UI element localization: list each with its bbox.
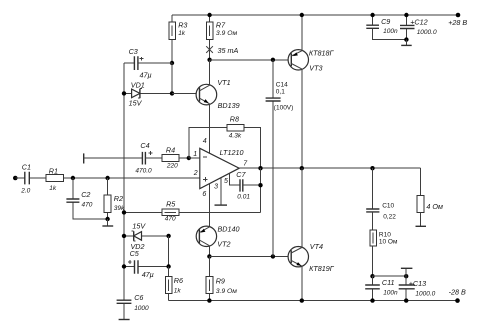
svg-text:4 Ом: 4 Ом: [426, 202, 443, 211]
node junction C13 top: [404, 274, 408, 278]
wire VT4 emitter: [301, 266, 303, 301]
svg-text:4: 4: [203, 138, 207, 145]
node junction VD1 cathode / VT1 base: [170, 91, 174, 95]
ground under C12: [401, 40, 412, 46]
svg-text:C5: C5: [130, 249, 140, 258]
node junction VT3 emitter top: [300, 13, 304, 17]
svg-text:1000.0: 1000.0: [415, 291, 435, 298]
svg-text:100n: 100n: [383, 28, 398, 35]
transistor VT4: [288, 242, 335, 273]
svg-text:2.0: 2.0: [20, 188, 30, 195]
svg-text:1k: 1k: [178, 30, 186, 37]
capacitor C1: [15, 163, 46, 195]
pin 4 label: [203, 138, 207, 145]
pin 6 label: [202, 191, 206, 198]
resistor R5: [124, 199, 261, 222]
svg-text:+С13: +С13: [409, 279, 426, 288]
capacitor C7: [236, 170, 260, 201]
resistor R4: [162, 145, 179, 169]
node junction R10/C11: [370, 274, 374, 278]
resistor R10: [370, 230, 398, 276]
node junction C2 tap: [71, 176, 75, 180]
svg-text:R2: R2: [114, 194, 123, 203]
zener diode VD1 15V: [124, 80, 172, 107]
node junction C7 right: [258, 183, 262, 187]
svg-text:VT4: VT4: [310, 242, 323, 251]
node junction R7/VT1 collector: [207, 58, 211, 62]
capacitor C13: [399, 276, 436, 300]
capacitor C3: [124, 47, 172, 80]
node junction VD1 anode: [122, 91, 126, 95]
svg-text:4.3k: 4.3k: [229, 132, 242, 139]
node junction C3/R3: [170, 61, 174, 65]
capacitor C12: [400, 15, 437, 40]
svg-text:R1: R1: [49, 167, 58, 176]
svg-text:VT1: VT1: [217, 78, 230, 87]
node +28V terminal: [456, 13, 461, 18]
resistor load 4 Ом: [417, 168, 443, 226]
svg-text:1: 1: [193, 151, 197, 158]
net label -28 В: [449, 288, 466, 297]
capacitor C4: [135, 141, 152, 175]
svg-text:LT1210: LT1210: [220, 148, 244, 157]
capacitor C6: [117, 293, 149, 319]
node junction C14 top tap: [271, 58, 275, 62]
svg-text:VT2: VT2: [217, 239, 230, 248]
svg-text:КТ819Г: КТ819Г: [309, 264, 335, 273]
svg-text:+С12: +С12: [410, 17, 427, 26]
svg-text:47µ: 47µ: [142, 270, 154, 279]
svg-text:470: 470: [82, 202, 93, 209]
ground under C6: [119, 319, 130, 321]
svg-text:C1: C1: [22, 163, 31, 172]
node junction C14 bottom tap: [271, 254, 275, 258]
wire VT3 emitter: [301, 15, 303, 51]
svg-text:C10: C10: [382, 203, 394, 210]
svg-text:R3: R3: [178, 21, 187, 30]
node junction VD2/C5/R6: [166, 234, 170, 238]
node junction VT2/R9/VT4 base: [207, 254, 211, 258]
wire R3 bottom to VD1 node: [171, 63, 173, 93]
svg-text:R9: R9: [216, 276, 225, 285]
wire +28V top rail: [172, 14, 458, 16]
wire C11/C13 link: [373, 275, 407, 277]
svg-text:0,1: 0,1: [276, 89, 285, 96]
resistor R7: [206, 15, 237, 60]
ground under load: [416, 225, 427, 227]
svg-text:C6: C6: [134, 293, 143, 302]
node junction VT4 emitter bottom: [300, 298, 304, 302]
wire bias chain vertical: [123, 63, 125, 300]
svg-text:15V: 15V: [132, 221, 146, 230]
svg-text:35 mA: 35 mA: [218, 46, 239, 55]
transistor VT3: [288, 49, 334, 73]
svg-text:R5: R5: [166, 199, 176, 208]
node junction output/VT3/VT4: [300, 166, 304, 170]
capacitor C2: [66, 178, 107, 219]
svg-text:+28 В: +28 В: [448, 18, 467, 27]
wire VT1 emitter to pin 4: [209, 104, 211, 154]
svg-text:C2: C2: [81, 190, 90, 199]
svg-text:470: 470: [165, 216, 176, 223]
node junction C9/C12 bottom: [404, 37, 408, 41]
wire -28V bottom rail: [169, 300, 458, 302]
wire VT3 base line: [210, 59, 292, 61]
node junction R7 top: [207, 13, 211, 17]
svg-text:220: 220: [166, 162, 178, 169]
input tap terminal bar: [83, 153, 85, 163]
capacitor C5: [124, 249, 169, 279]
resistor R2: [104, 178, 125, 219]
svg-text:1k: 1k: [49, 185, 57, 192]
wire VT4 base line: [209, 255, 291, 257]
node junction R5 left: [122, 210, 126, 214]
node junction C13 bottom: [404, 298, 408, 302]
pin 5 label: [224, 178, 228, 185]
svg-text:(100V): (100V): [274, 105, 294, 112]
svg-text:0,22: 0,22: [383, 214, 396, 221]
wire pin 6 to VT2 emitter: [208, 184, 210, 227]
svg-text:C11: C11: [382, 278, 395, 287]
capacitor C9: [366, 15, 406, 40]
svg-text:BD139: BD139: [218, 101, 240, 110]
svg-text:C9: C9: [381, 17, 390, 26]
wire VT1 base: [172, 92, 200, 94]
pin 3 label: [214, 184, 218, 191]
svg-text:1000: 1000: [134, 305, 149, 312]
svg-text:VT3: VT3: [309, 63, 322, 72]
transistor VT2: [196, 225, 239, 249]
resistor R9: [206, 256, 237, 300]
svg-text:R4: R4: [166, 145, 175, 154]
svg-text:100n: 100n: [383, 290, 398, 297]
capacitor C10: [366, 168, 396, 230]
ground above C13: [401, 268, 413, 276]
node junction C10 tap: [370, 166, 374, 170]
ground under R2: [102, 219, 113, 226]
svg-text:1000.0: 1000.0: [417, 29, 437, 36]
svg-text:R6: R6: [174, 276, 183, 285]
wire VT3 collector to output: [301, 69, 303, 168]
svg-text:3.9 Ом: 3.9 Ом: [216, 288, 238, 295]
resistor R1: [46, 167, 64, 192]
node junction R9 bottom: [207, 298, 211, 302]
svg-text:2: 2: [193, 170, 198, 177]
wire pin 1 stub: [189, 157, 200, 159]
svg-text:R7: R7: [216, 21, 226, 30]
node junction C5/R6: [166, 264, 170, 268]
transistor VT1: [196, 78, 239, 110]
node junction C11 bottom: [370, 298, 374, 302]
zener diode VD2 15V: [124, 221, 169, 251]
node junction C5 left: [122, 264, 126, 268]
wire pin 5 to C7: [230, 173, 240, 185]
wire VT1 collector: [209, 60, 211, 85]
svg-text:C4: C4: [140, 141, 149, 150]
svg-text:470.0: 470.0: [135, 168, 152, 175]
svg-text:C7: C7: [236, 170, 246, 179]
current marker X 35 mA: [206, 46, 238, 55]
wire VD2 node down to C5: [168, 236, 170, 267]
svg-text:3.9 Ом: 3.9 Ом: [216, 30, 238, 37]
capacitor C11: [365, 276, 398, 300]
svg-text:C3: C3: [129, 47, 138, 56]
node junction output/R8/C7: [258, 166, 262, 170]
svg-text:15V: 15V: [129, 99, 143, 108]
node junction C12 top: [404, 13, 408, 17]
resistor R3: [169, 15, 188, 63]
node -28V terminal: [455, 298, 460, 303]
svg-text:-28 В: -28 В: [449, 288, 466, 297]
wire C4 to R4: [145, 157, 162, 159]
wire R1 to op-amp pin 2: [63, 177, 199, 179]
svg-text:КТ818Г: КТ818Г: [309, 49, 335, 58]
ground at pin 3: [215, 178, 228, 205]
wire output to C7/R5 tap: [260, 168, 262, 212]
svg-text:0.01: 0.01: [237, 194, 250, 201]
svg-text:47µ: 47µ: [140, 70, 152, 79]
capacitor C14: [266, 60, 294, 257]
svg-text:3: 3: [214, 184, 218, 191]
op-amp U1 LT1210: [200, 148, 244, 189]
wire VT2 collector: [208, 246, 210, 257]
wire VT4 collector to output: [301, 168, 303, 247]
node junction R2 tap: [105, 176, 109, 180]
resistor R8: [189, 114, 261, 168]
wire tap to C4: [84, 157, 143, 159]
svg-text:6: 6: [202, 191, 206, 198]
svg-text:R8: R8: [230, 114, 239, 123]
node junction VD2 cathode: [122, 234, 126, 238]
svg-text:5: 5: [224, 178, 228, 185]
svg-text:VD1: VD1: [131, 80, 145, 89]
node junction R2/C2 bottom: [105, 217, 109, 221]
svg-text:10 Ом: 10 Ом: [379, 238, 398, 245]
svg-text:1k: 1k: [174, 288, 182, 295]
node junction C9 top: [370, 13, 374, 17]
pin 1 label: [193, 151, 197, 158]
resistor R6: [165, 267, 183, 301]
node junction pin1/R4/R8: [187, 156, 191, 160]
net label +28 В: [448, 18, 467, 27]
wire R4 to pin 1: [179, 157, 200, 159]
pin 7 label: [243, 161, 248, 168]
wire output line: [239, 167, 421, 169]
svg-text:BD140: BD140: [218, 225, 240, 234]
pin 2 label: [193, 170, 198, 177]
input terminal: [13, 176, 18, 181]
